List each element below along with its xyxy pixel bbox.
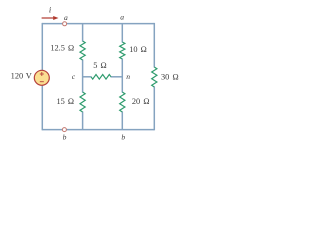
wire left rail lower — [41, 85, 43, 131]
svg-text:20 Ω: 20 Ω — [132, 97, 150, 106]
wire branch2 mid segment (to node n) — [121, 59, 123, 93]
wire 5ohm to node n — [111, 76, 123, 78]
svg-text:12.5 Ω: 12.5 Ω — [50, 44, 74, 53]
wire branch1 top segment — [82, 24, 84, 42]
svg-text:i: i — [49, 5, 52, 14]
wire right rail upper — [153, 23, 155, 68]
node a label at branch2 top — [120, 13, 124, 22]
node a (circle on top wire) — [63, 13, 68, 26]
resistor 30ohm — [152, 67, 179, 87]
node b label at branch2 bottom — [121, 133, 125, 142]
voltage source 120V — [11, 70, 50, 85]
svg-text:b: b — [121, 133, 125, 142]
wire left rail upper — [41, 23, 43, 71]
resistor 20ohm — [120, 92, 150, 112]
wire right rail lower — [153, 87, 155, 131]
svg-text:10 Ω: 10 Ω — [129, 45, 147, 54]
svg-text:15 Ω: 15 Ω — [56, 97, 74, 106]
svg-text:c: c — [72, 72, 76, 81]
wire branch1 mid segment (to node c) — [82, 60, 84, 93]
svg-text:30 Ω: 30 Ω — [161, 73, 179, 82]
svg-text:5 Ω: 5 Ω — [93, 61, 107, 70]
svg-text:a: a — [64, 13, 68, 22]
wire branch2 top segment — [121, 24, 123, 43]
node c label — [72, 72, 76, 81]
wire branch2 bottom segment — [121, 112, 123, 130]
resistor 10ohm — [120, 42, 147, 59]
svg-text:120 V: 120 V — [11, 71, 32, 80]
node n label — [126, 72, 130, 81]
svg-text:n: n — [126, 72, 130, 81]
wire branch1 bottom segment — [82, 112, 84, 130]
svg-text:b: b — [63, 133, 67, 142]
svg-text:a: a — [120, 13, 124, 22]
wire top rail a-to-right — [42, 23, 154, 25]
resistor 15ohm — [56, 92, 85, 112]
current arrow i — [42, 5, 59, 20]
resistor 5ohm — [91, 61, 111, 79]
wire bottom rail — [42, 129, 154, 131]
wire node c to 5ohm — [83, 76, 92, 78]
resistor 12.5ohm — [50, 41, 85, 60]
node b (circle on bottom wire) — [62, 128, 66, 142]
